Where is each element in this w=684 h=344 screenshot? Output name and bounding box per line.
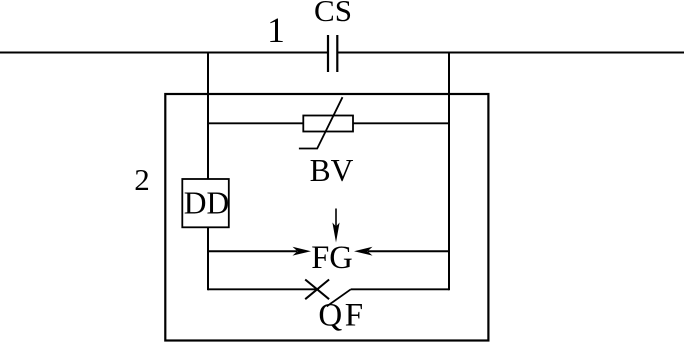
varistor BV <box>299 97 353 148</box>
wire varistor row right <box>353 122 449 124</box>
svg-text:FG: FG <box>311 240 353 276</box>
svg-text:CS: CS <box>314 0 352 28</box>
svg-text:2: 2 <box>134 162 150 197</box>
svg-text:1: 1 <box>267 10 285 50</box>
svg-text:BV: BV <box>310 153 354 188</box>
wire bus right segment <box>338 52 684 54</box>
wire bus left segment <box>0 52 327 54</box>
arrow into FG from right <box>354 247 449 256</box>
arrow into FG from left <box>208 247 311 256</box>
wire QF row right <box>351 288 449 290</box>
arrow into FG from top <box>332 209 339 243</box>
wire QF row left <box>208 288 319 290</box>
capacitor CS <box>328 35 337 72</box>
breaker QF cross mark <box>305 280 329 300</box>
breaker QF blade <box>327 289 351 306</box>
wire left drop from bus <box>207 53 209 291</box>
device DD <box>182 179 229 227</box>
svg-text:DD: DD <box>184 186 230 221</box>
svg-text:QF: QF <box>318 297 365 333</box>
wire right drop from bus <box>448 53 450 291</box>
wire varistor row left <box>208 122 303 124</box>
enclosure box 2 <box>165 94 488 341</box>
